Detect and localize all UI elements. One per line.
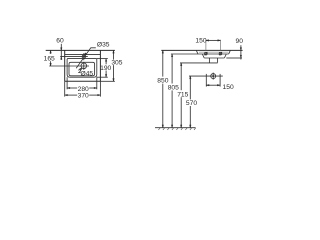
- dim 305 top arrow: [113, 50, 115, 53]
- dim 165 line: [50, 50, 52, 53]
- dim 190 line: [105, 59, 107, 65]
- fixing hole right hatch: [219, 52, 222, 55]
- rect right edge + extension down: [99, 50, 101, 81]
- fixing hole left: [205, 52, 208, 55]
- svg-text:60: 60: [56, 38, 64, 45]
- svg-text:90: 90: [236, 38, 244, 45]
- dim 150 top left arrow: [206, 40, 209, 42]
- dim 280 ext left: [66, 77, 68, 89]
- dim 570 bottom arrow: [190, 125, 192, 128]
- waste outlet circle: [211, 74, 216, 79]
- dim 90 line: [240, 45, 242, 59]
- dim 190 ext bottom: [97, 76, 108, 78]
- waste outlet centerline horizontal: [189, 75, 223, 77]
- leader tail tick: [78, 69, 80, 70]
- drain circle: [81, 63, 87, 69]
- floor hatch: [158, 128, 195, 130]
- dim 150 bottom right arrow: [217, 84, 220, 86]
- body left side: [202, 54, 204, 58]
- dim 150 bottom line: [206, 84, 220, 86]
- label Ø35 leader: [76, 48, 96, 68]
- dim 90 top arrow: [240, 48, 242, 51]
- bowl floor inner rounded rect: [69, 62, 95, 76]
- svg-text:150: 150: [223, 84, 234, 91]
- label Ø45 tick: [78, 72, 80, 74]
- label Ø45 leader: [80, 69, 82, 72]
- drain centerline vertical: [83, 62, 85, 70]
- dim 150 top right arrow: [218, 40, 221, 42]
- dim 90 bottom arrow: [240, 55, 242, 58]
- svg-text:Ø35: Ø35: [97, 42, 110, 49]
- deck inner line: [65, 54, 101, 56]
- dim 370 line: [65, 94, 78, 96]
- rim left bevel: [196, 50, 198, 54]
- svg-text:305: 305: [111, 60, 122, 67]
- dim 60 line: [60, 44, 62, 60]
- svg-text:Ø45: Ø45: [81, 71, 94, 78]
- dim 280 left arrow: [67, 87, 70, 89]
- dim 715 bottom arrow: [180, 125, 182, 128]
- top edge with extensions: [161, 49, 242, 51]
- dim 150 top ext left: [205, 40, 207, 51]
- dim 715 line: [180, 63, 182, 90]
- dim 280 line: [67, 87, 77, 89]
- tap hole centerline horizontal: [60, 56, 88, 58]
- tap hole circle: [82, 55, 85, 58]
- dim 570 line: [189, 76, 191, 99]
- bowl outer rounded rect: [67, 59, 97, 78]
- svg-text:715: 715: [177, 92, 188, 99]
- dim 370 left arrow: [65, 94, 68, 96]
- label Ø35 leader arrow: [84, 53, 87, 56]
- dim 305 line: [113, 50, 115, 59]
- body right side: [224, 54, 226, 58]
- fixing hole right: [219, 52, 222, 55]
- svg-text:805: 805: [168, 84, 179, 91]
- label Ø45 leader arrow: [79, 68, 82, 70]
- dim 60 bottom arrow: [61, 57, 63, 60]
- dim 305 bottom arrow: [113, 79, 115, 82]
- stub right side: [217, 58, 219, 63]
- svg-text:370: 370: [78, 92, 89, 99]
- svg-text:150: 150: [195, 38, 206, 45]
- waste outlet centerline vertical: [212, 73, 214, 80]
- stub bottom with left extension: [180, 62, 218, 64]
- dim 280 ext right: [96, 77, 98, 89]
- dim 150 top ext right: [220, 40, 222, 51]
- dim 165 top arrow: [50, 50, 52, 53]
- rect bottom edge + right extension: [65, 80, 101, 82]
- dim 150 bottom ext right: [219, 74, 221, 87]
- dim 805 bottom arrow: [171, 125, 173, 128]
- dim 715 top arrow: [180, 63, 182, 66]
- svg-text:190: 190: [100, 65, 111, 72]
- dim 150 bottom ext left: [205, 74, 207, 87]
- top edge with extensions: [46, 49, 115, 51]
- dim 60 top arrow: [61, 48, 63, 51]
- dim 850 bottom arrow: [162, 125, 164, 128]
- dim 850 top arrow: [162, 50, 164, 53]
- dim 190 bottom arrow: [105, 74, 107, 77]
- dim 150 top line: [206, 39, 221, 41]
- dim 805 top arrow: [171, 54, 173, 57]
- rim inner line: [199, 51, 228, 53]
- dim 190 top arrow: [105, 59, 107, 62]
- dim 190 ext top: [97, 58, 108, 60]
- fixing hole left hatch: [204, 52, 207, 55]
- waste outlet inner dot: [212, 75, 214, 77]
- dim 805 line: [171, 54, 173, 84]
- stub left side: [208, 58, 210, 63]
- rim right bevel: [229, 50, 231, 54]
- dim 370 right arrow: [98, 94, 101, 96]
- tap hole centerline vertical: [83, 53, 85, 60]
- rect left edge + extension down: [64, 50, 66, 81]
- svg-text:165: 165: [44, 55, 55, 62]
- floor line: [155, 127, 196, 129]
- svg-text:570: 570: [186, 100, 197, 107]
- dim 90 ext bottom: [226, 57, 242, 59]
- dim 850 line: [162, 50, 164, 76]
- rim bottom line with left extension: [171, 53, 229, 55]
- dim 150 bottom left arrow: [206, 84, 209, 86]
- body bottom: [204, 57, 224, 59]
- drain centerline horizontal: [49, 65, 89, 67]
- dim 165 bottom arrow: [50, 63, 52, 66]
- dim 570 top arrow: [190, 76, 192, 79]
- dim 280 right arrow: [94, 87, 97, 89]
